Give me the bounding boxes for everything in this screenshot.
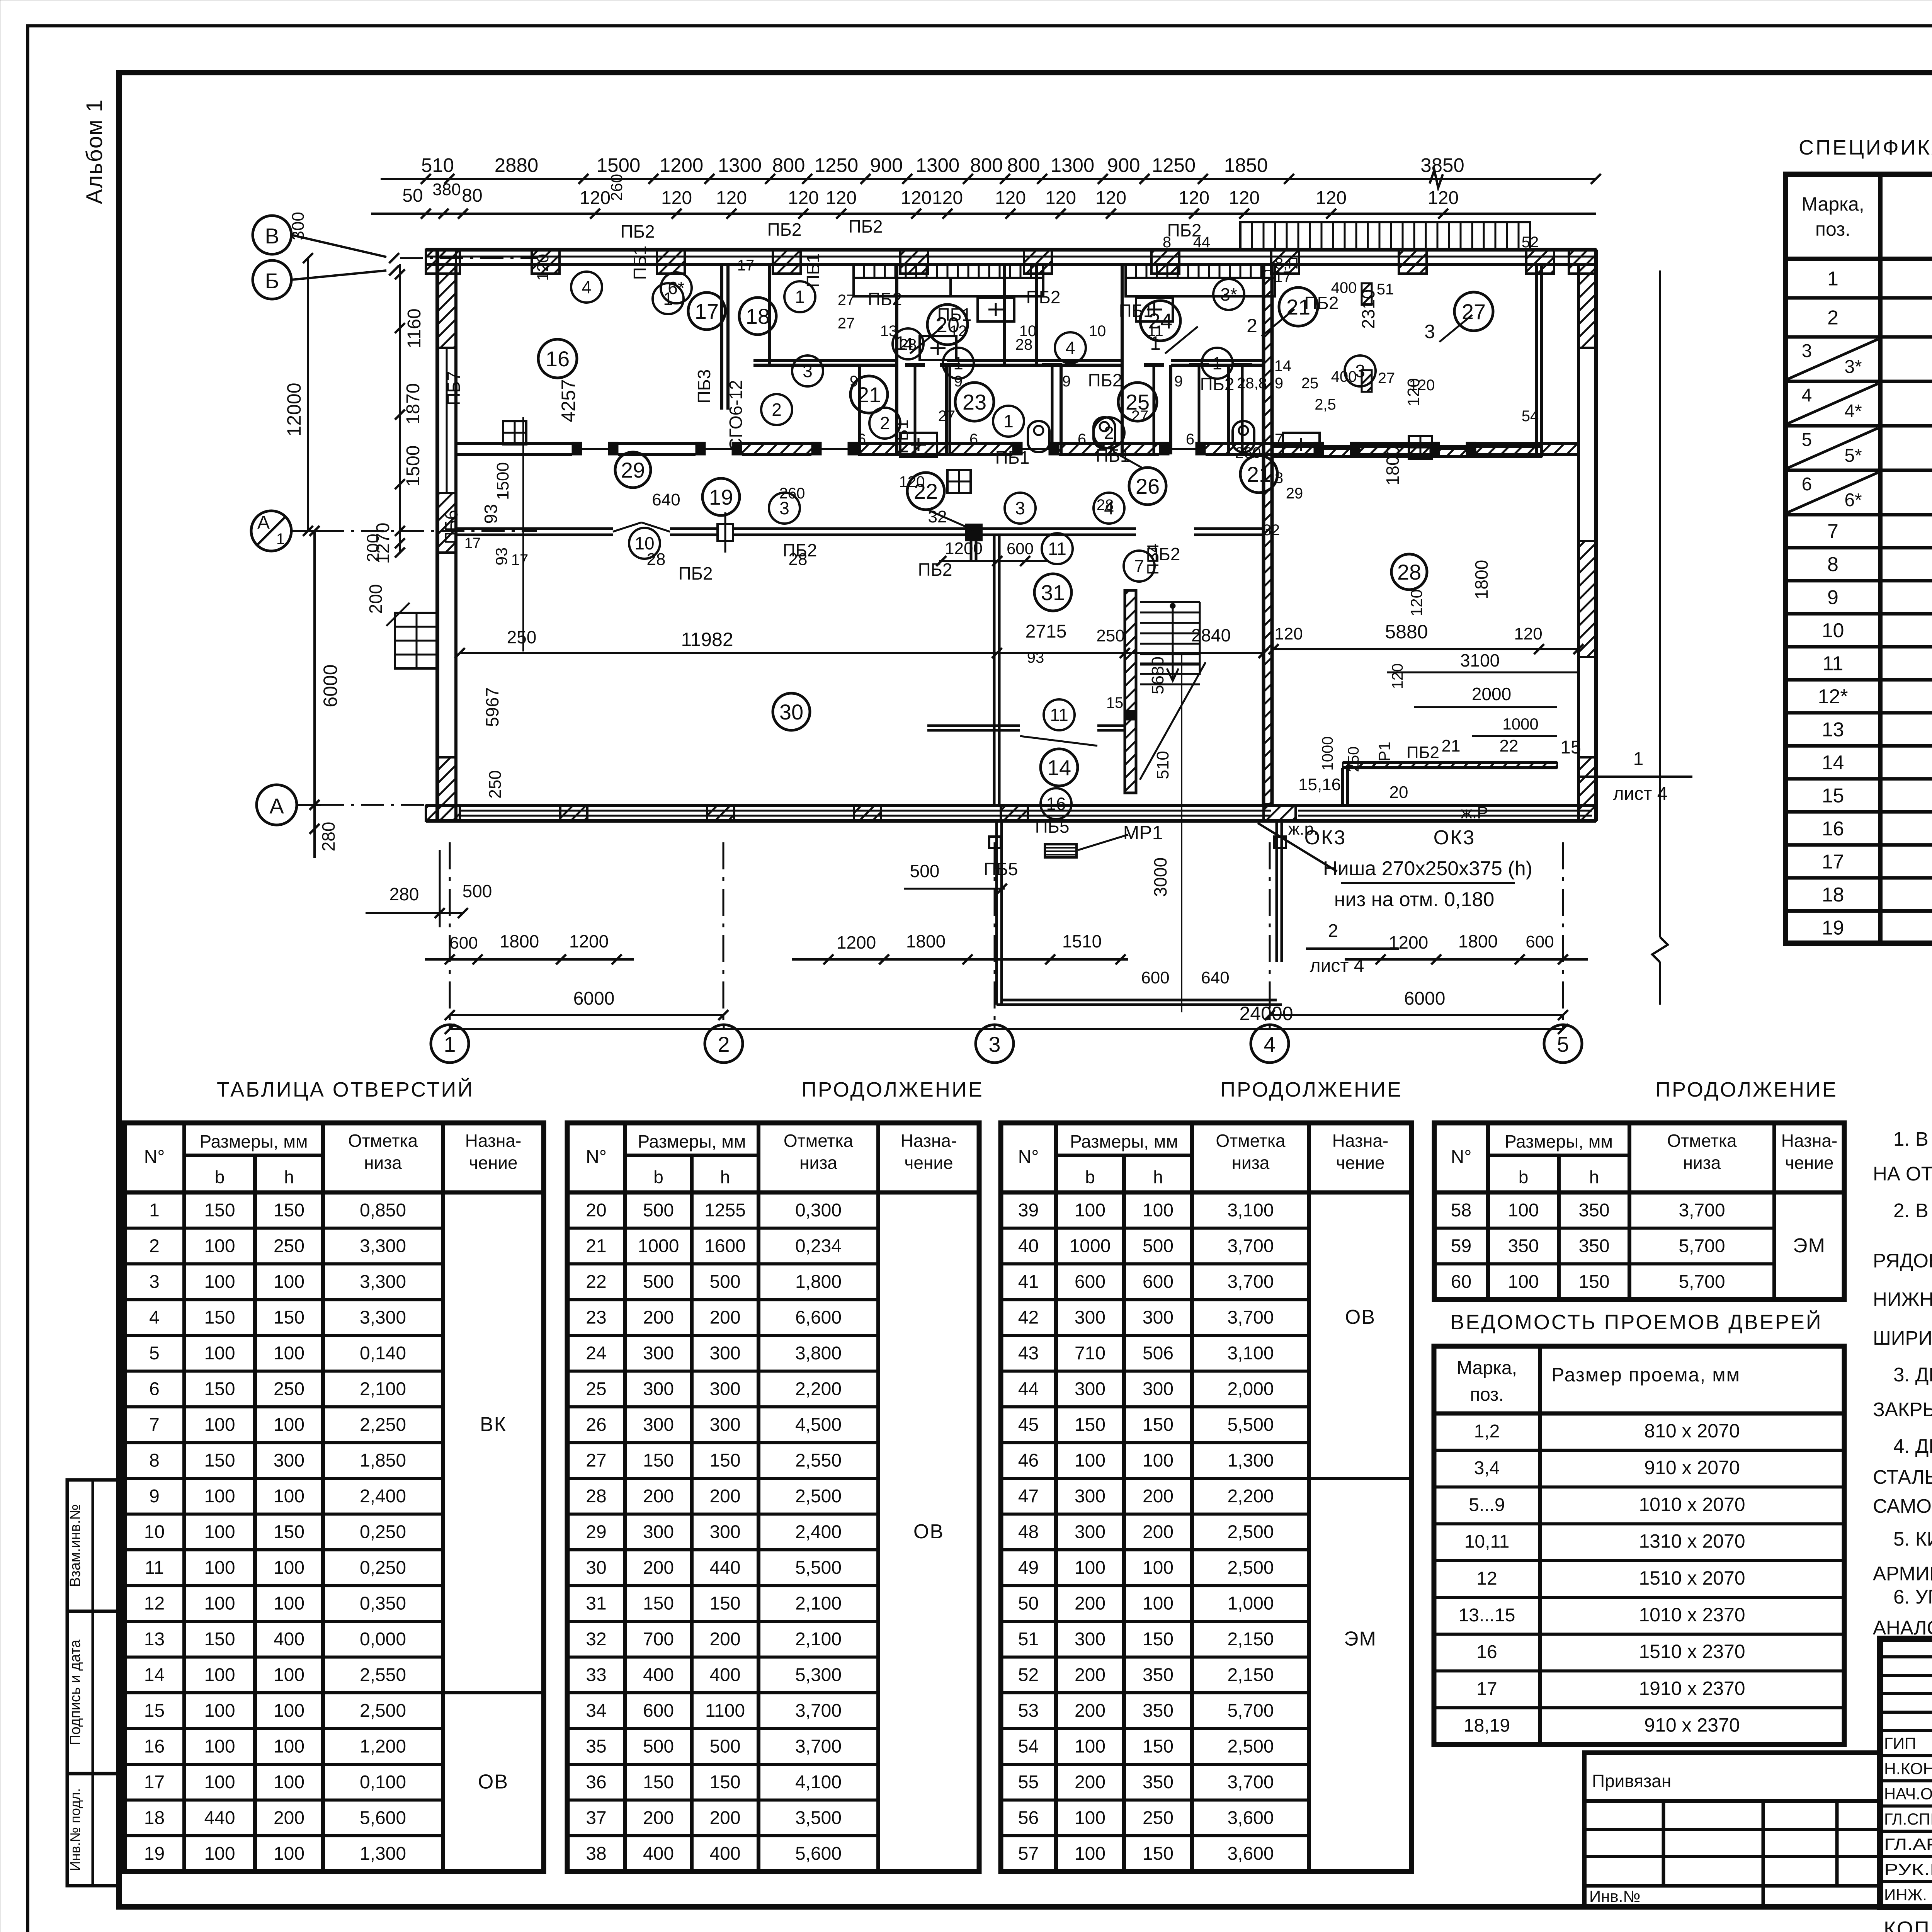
table3 row 54 <box>1001 1763 1309 1766</box>
table1 frame <box>124 1123 544 1872</box>
svg-text:5,700: 5,700 <box>1227 1701 1274 1721</box>
svg-text:3,4: 3,4 <box>1474 1458 1500 1478</box>
svg-text:1. В ПОМЕЩЕНИИ 16 ОКНО СГ: 1. В ПОМЕЩЕНИИ 16 ОКНО СГО 6-12 ГОСТ 125… <box>1893 1128 1932 1150</box>
svg-text:350: 350 <box>1508 1236 1539 1257</box>
svg-text:2,500: 2,500 <box>1227 1522 1274 1543</box>
svg-text:b: b <box>653 1167 663 1187</box>
position circle 4 <box>571 272 602 303</box>
svg-text:200: 200 <box>1143 1486 1173 1507</box>
svg-text:Размер проема, мм: Размер проема, мм <box>1551 1364 1740 1386</box>
cloakroom rack 1 <box>854 265 1043 278</box>
svg-text:2,500: 2,500 <box>1227 1736 1274 1757</box>
svg-text:СПЕЦИФИКАЦИЯ ЭЛЕМЕНТОВ ЗАПОЛ: СПЕЦИФИКАЦИЯ ЭЛЕМЕНТОВ ЗАПОЛНЕНИЯ ПРОЕМО… <box>1799 136 1932 159</box>
svg-text:1910 х 2370: 1910 х 2370 <box>1639 1677 1745 1699</box>
svg-text:100: 100 <box>274 1736 304 1757</box>
svg-text:3,700: 3,700 <box>1227 1236 1274 1257</box>
svg-text:3850: 3850 <box>1420 154 1464 176</box>
svg-text:2: 2 <box>1827 307 1838 329</box>
svg-text:120: 120 <box>716 188 747 208</box>
vedomost row 5...9 <box>1434 1522 1844 1526</box>
room28 dim row <box>1274 648 1578 650</box>
svg-text:НА ОТМЕТКЕ 1,200: НА ОТМЕТКЕ 1,200 <box>1873 1163 1932 1185</box>
position circle 1 <box>1202 348 1233 379</box>
svg-text:510: 510 <box>1153 751 1172 779</box>
svg-text:39: 39 <box>1018 1200 1039 1221</box>
svg-text:b: b <box>1085 1167 1095 1187</box>
vedomost frame <box>1434 1346 1844 1745</box>
svg-text:120: 120 <box>1407 589 1425 616</box>
spec row 1 <box>1786 296 1932 300</box>
svg-text:27: 27 <box>1378 370 1395 387</box>
svg-text:21: 21 <box>1442 736 1461 755</box>
svg-text:54: 54 <box>1018 1736 1039 1757</box>
svg-text:250: 250 <box>1143 1808 1173 1828</box>
vedomost row 1,2 <box>1434 1449 1844 1452</box>
table3 row 42 <box>1001 1334 1309 1337</box>
title block row ГЛ.АРХ. <box>1880 1855 1932 1858</box>
svg-text:50: 50 <box>402 185 423 206</box>
axis row Б <box>253 260 291 299</box>
svg-text:1870: 1870 <box>403 383 423 425</box>
svg-text:1800: 1800 <box>1458 931 1498 951</box>
partition room27 left/bottom <box>1535 264 1538 457</box>
niche leader and note <box>1258 823 1337 871</box>
svg-text:900: 900 <box>870 154 903 176</box>
svg-text:200: 200 <box>709 1629 740 1650</box>
svg-text:150: 150 <box>274 1308 304 1328</box>
svg-text:ПБ1: ПБ1 <box>937 304 972 325</box>
svg-text:ОВ: ОВ <box>1345 1306 1376 1328</box>
wc bowls <box>1028 421 1049 452</box>
vedomost row 18,19 <box>1434 1743 1844 1746</box>
svg-text:350: 350 <box>1143 1665 1173 1685</box>
vedomost row 12 <box>1434 1596 1844 1599</box>
svg-text:100: 100 <box>1075 1451 1105 1471</box>
svg-text:200: 200 <box>274 1808 304 1828</box>
corridor wall opening bridge <box>613 522 641 532</box>
dim 1200 600 at hall wall <box>939 560 1047 562</box>
svg-text:4,500: 4,500 <box>795 1415 842 1435</box>
svg-text:Привязан: Привязан <box>1592 1771 1671 1791</box>
svg-text:ВЕДОМОСТЬ ПРОЕМОВ ДВЕРЕЙ: ВЕДОМОСТЬ ПРОЕМОВ ДВЕРЕЙ <box>1450 1310 1822 1334</box>
spec row 11 <box>1786 678 1932 682</box>
svg-text:23: 23 <box>586 1308 606 1328</box>
svg-text:200: 200 <box>364 534 383 562</box>
svg-text:ГИП: ГИП <box>1884 1734 1916 1752</box>
svg-text:4*: 4* <box>1844 401 1862 422</box>
svg-text:1500: 1500 <box>493 462 512 500</box>
svg-text:45: 45 <box>1018 1415 1039 1435</box>
svg-text:N°: N° <box>586 1147 607 1167</box>
svg-text:27: 27 <box>586 1451 606 1471</box>
svg-text:26: 26 <box>586 1415 606 1435</box>
svg-text:150: 150 <box>1143 1736 1173 1757</box>
svg-text:1000: 1000 <box>1319 736 1336 771</box>
svg-text:120: 120 <box>1389 663 1406 689</box>
svg-text:ПБ2: ПБ2 <box>783 540 817 560</box>
svg-text:38: 38 <box>586 1844 606 1864</box>
svg-text:ПБ2: ПБ2 <box>1088 370 1122 390</box>
svg-text:А: А <box>257 512 270 533</box>
svg-text:ПРОДОЛЖЕНИЕ: ПРОДОЛЖЕНИЕ <box>1655 1078 1838 1101</box>
spec row 5 <box>1786 469 1932 472</box>
table1 row 16 <box>124 1763 443 1766</box>
top dimension chain row1 <box>381 178 1596 180</box>
svg-text:5,600: 5,600 <box>360 1808 406 1828</box>
svg-text:15: 15 <box>1106 694 1124 711</box>
corridor wall axis post <box>718 524 733 541</box>
svg-text:b: b <box>215 1167 225 1187</box>
table3 row 43 <box>1001 1370 1309 1373</box>
svg-text:низа: низа <box>1232 1153 1270 1173</box>
position circle 16 <box>1041 788 1071 819</box>
svg-text:ПБ1: ПБ1 <box>630 246 650 280</box>
svg-text:Альбом 1: Альбом 1 <box>82 99 107 204</box>
svg-text:2: 2 <box>718 1032 730 1056</box>
svg-text:640: 640 <box>652 490 680 509</box>
svg-text:27: 27 <box>838 315 855 332</box>
room circle 25 <box>1118 383 1157 421</box>
svg-text:9: 9 <box>1174 373 1183 390</box>
svg-text:4257: 4257 <box>558 379 579 422</box>
svg-text:17: 17 <box>1476 1679 1497 1699</box>
lintel stubs room27 <box>1362 283 1372 305</box>
svg-text:22: 22 <box>1500 736 1519 755</box>
svg-text:120: 120 <box>899 473 925 490</box>
svg-text:2,200: 2,200 <box>1227 1486 1274 1507</box>
title block row ГИП <box>1880 1754 1932 1757</box>
svg-text:8: 8 <box>1163 234 1171 251</box>
table3 row 49 <box>1001 1584 1309 1587</box>
svg-text:16: 16 <box>1046 794 1066 814</box>
svg-text:120: 120 <box>826 188 857 208</box>
svg-text:48: 48 <box>1018 1522 1039 1543</box>
svg-text:3*: 3* <box>1220 284 1237 304</box>
svg-text:ОВ: ОВ <box>478 1771 509 1793</box>
svg-text:15: 15 <box>1822 784 1844 807</box>
svg-text:500: 500 <box>709 1736 740 1757</box>
svg-text:1255: 1255 <box>704 1200 746 1221</box>
hall dim row <box>460 652 1264 654</box>
table3 row 44 <box>1001 1405 1309 1408</box>
svg-text:5,700: 5,700 <box>1679 1236 1725 1257</box>
position circle 6* <box>661 272 692 303</box>
svg-text:ПБ5: ПБ5 <box>984 859 1018 879</box>
svg-text:17: 17 <box>737 257 755 274</box>
svg-text:1250: 1250 <box>1152 154 1196 176</box>
table2 row 20 <box>567 1227 878 1230</box>
room circle 23 <box>955 383 994 421</box>
svg-text:ПБ2: ПБ2 <box>1026 287 1061 307</box>
table2 row 25 <box>567 1405 878 1408</box>
spec row 17 <box>1786 876 1932 880</box>
svg-text:чение: чение <box>469 1153 517 1173</box>
svg-text:800: 800 <box>1007 154 1040 176</box>
svg-text:2000: 2000 <box>1472 684 1511 704</box>
svg-text:2,100: 2,100 <box>795 1629 842 1650</box>
outside gallery strip top right <box>1240 222 1530 250</box>
svg-text:120: 120 <box>1316 188 1347 208</box>
svg-text:300: 300 <box>709 1379 740 1400</box>
svg-text:100: 100 <box>204 1522 235 1543</box>
svg-text:11982: 11982 <box>681 629 733 650</box>
position circle 11 <box>1042 533 1073 564</box>
left dim chain inner <box>399 264 401 553</box>
svg-text:100: 100 <box>204 1772 235 1793</box>
svg-text:0,250: 0,250 <box>360 1522 406 1543</box>
circle 22 leader <box>928 510 974 530</box>
svg-text:3*: 3* <box>1844 357 1862 377</box>
svg-text:440: 440 <box>709 1558 740 1578</box>
svg-text:18,19: 18,19 <box>1464 1716 1510 1736</box>
svg-text:В: В <box>265 224 279 248</box>
room circle 20 <box>927 304 968 345</box>
svg-text:5967: 5967 <box>482 687 502 727</box>
spec row 4 <box>1786 424 1932 428</box>
vestibule step MP1 <box>1045 844 1077 857</box>
svg-text:150: 150 <box>643 1594 674 1614</box>
svg-text:6*: 6* <box>668 278 685 298</box>
svg-text:300: 300 <box>1143 1308 1173 1328</box>
position circle 3 <box>792 355 823 386</box>
svg-text:9: 9 <box>850 373 858 390</box>
svg-text:Марка,: Марка, <box>1801 193 1864 215</box>
svg-text:0,100: 0,100 <box>360 1772 406 1793</box>
exterior wall bottom right OK3 windows <box>1296 804 1596 807</box>
svg-text:17: 17 <box>464 535 481 551</box>
svg-text:150: 150 <box>643 1451 674 1471</box>
table1 row 2 <box>124 1262 443 1265</box>
svg-text:93: 93 <box>1027 649 1044 666</box>
svg-text:ПБ6: ПБ6 <box>441 510 461 544</box>
svg-text:53: 53 <box>1018 1701 1039 1721</box>
table2 row 32 <box>567 1656 878 1659</box>
svg-text:380: 380 <box>432 180 461 199</box>
vedomost row 16 <box>1434 1669 1844 1672</box>
svg-text:350: 350 <box>1578 1200 1609 1221</box>
svg-text:5*: 5* <box>1844 446 1862 466</box>
svg-text:ПБ2: ПБ2 <box>1406 743 1439 762</box>
svg-text:4: 4 <box>582 277 592 297</box>
table1 row 18 <box>124 1834 443 1837</box>
table2 row 23 <box>567 1334 878 1337</box>
svg-text:ЗАКРЫВАЮЩИМИСЯ.: ЗАКРЫВАЮЩИМИСЯ. <box>1873 1398 1932 1420</box>
table2 row 21 <box>567 1262 878 1265</box>
svg-text:5,300: 5,300 <box>795 1665 842 1685</box>
svg-text:93: 93 <box>481 504 501 524</box>
svg-text:13...15: 13...15 <box>1459 1605 1515 1626</box>
svg-text:1800: 1800 <box>500 931 539 951</box>
svg-text:100: 100 <box>204 1272 235 1292</box>
svg-text:низа: низа <box>799 1153 837 1173</box>
svg-text:300: 300 <box>274 1451 304 1471</box>
table2 row 36 <box>567 1799 878 1802</box>
table3 frame <box>1001 1123 1412 1872</box>
svg-text:ГЛ.АРХ.: ГЛ.АРХ. <box>1884 1835 1932 1853</box>
svg-text:2840: 2840 <box>1191 625 1231 645</box>
svg-text:21: 21 <box>857 383 881 407</box>
svg-text:2: 2 <box>1328 921 1338 941</box>
svg-text:43: 43 <box>1018 1343 1039 1364</box>
svg-text:32: 32 <box>1263 522 1280 539</box>
svg-text:НАЧ.ОТД.: НАЧ.ОТД. <box>1884 1785 1932 1803</box>
svg-text:280: 280 <box>318 822 338 852</box>
svg-text:56: 56 <box>1018 1808 1039 1828</box>
svg-text:58: 58 <box>1451 1200 1471 1221</box>
svg-text:18: 18 <box>1822 884 1844 906</box>
svg-text:100: 100 <box>274 1486 304 1507</box>
svg-text:600: 600 <box>1141 968 1169 987</box>
svg-text:2,250: 2,250 <box>360 1415 406 1435</box>
svg-text:200: 200 <box>709 1308 740 1328</box>
svg-text:ПБ4: ПБ4 <box>1144 543 1162 575</box>
svg-text:100: 100 <box>1143 1200 1173 1221</box>
svg-text:100: 100 <box>1143 1451 1173 1471</box>
table2 row 37 <box>567 1834 878 1837</box>
svg-text:710: 710 <box>1075 1343 1105 1364</box>
svg-text:400: 400 <box>274 1629 304 1650</box>
stair cut line <box>1140 662 1206 780</box>
svg-text:800: 800 <box>970 154 1003 176</box>
svg-text:6: 6 <box>149 1379 160 1400</box>
svg-text:100: 100 <box>274 1272 304 1292</box>
left box Подпись и дата <box>67 1611 119 1774</box>
svg-text:4,100: 4,100 <box>795 1772 842 1793</box>
vedomost row 10,11 <box>1434 1559 1844 1562</box>
svg-text:47: 47 <box>1018 1486 1039 1507</box>
svg-text:25: 25 <box>586 1379 606 1400</box>
svg-text:100: 100 <box>204 1236 235 1257</box>
svg-text:1: 1 <box>1003 411 1014 431</box>
exterior wall right <box>1577 264 1580 821</box>
svg-text:150: 150 <box>1143 1844 1173 1864</box>
position circle 4 <box>1055 332 1086 363</box>
svg-text:11: 11 <box>1048 539 1066 559</box>
svg-text:300: 300 <box>1075 1486 1105 1507</box>
svg-text:АРМИРОВАННЫМИ. СХЕМЫ АРМИРО: АРМИРОВАННЫМИ. СХЕМЫ АРМИРОВАНИЯ ДАНЫ НА… <box>1873 1563 1932 1585</box>
table2 row 30 <box>567 1584 878 1587</box>
table1 row 15 <box>124 1727 443 1730</box>
svg-text:ПБ1: ПБ1 <box>1096 446 1130 466</box>
table3 row 56 <box>1001 1834 1309 1837</box>
svg-text:300: 300 <box>1075 1308 1105 1328</box>
svg-text:350: 350 <box>1143 1701 1173 1721</box>
svg-text:3,600: 3,600 <box>1227 1844 1274 1864</box>
svg-text:27: 27 <box>838 292 855 309</box>
svg-text:N°: N° <box>1451 1147 1472 1167</box>
svg-text:600: 600 <box>1075 1272 1105 1292</box>
spec row 12* <box>1786 711 1932 714</box>
svg-text:3: 3 <box>803 361 813 381</box>
svg-text:100: 100 <box>204 1558 235 1578</box>
svg-text:1000: 1000 <box>638 1236 679 1257</box>
position circle 10 <box>629 528 660 559</box>
room circle 22 <box>907 473 944 510</box>
svg-text:31: 31 <box>586 1594 606 1614</box>
svg-text:4: 4 <box>1065 338 1075 358</box>
svg-text:150: 150 <box>204 1308 235 1328</box>
svg-text:600: 600 <box>1526 932 1554 951</box>
table2 row 27 <box>567 1477 878 1480</box>
table1 row 13 <box>124 1656 443 1659</box>
top wall piers <box>426 250 460 274</box>
table2 row 29 <box>567 1548 878 1551</box>
svg-text:29: 29 <box>621 458 645 482</box>
svg-text:1: 1 <box>444 1032 456 1056</box>
spec row 19 <box>1786 942 1932 946</box>
svg-text:100: 100 <box>204 1486 235 1507</box>
svg-text:2,550: 2,550 <box>360 1665 406 1685</box>
circle 26 leader <box>1113 451 1143 468</box>
table3 row 39 <box>1001 1227 1309 1230</box>
svg-text:27: 27 <box>938 408 956 425</box>
table3 row 52 <box>1001 1691 1309 1694</box>
table3 row 50 <box>1001 1620 1309 1623</box>
svg-text:Ниша 270х250х375 (h): Ниша 270х250х375 (h) <box>1323 857 1532 880</box>
position circle 4 <box>1094 493 1124 524</box>
axis row B <box>253 216 291 254</box>
svg-text:12: 12 <box>144 1594 165 1614</box>
svg-text:3,700: 3,700 <box>1227 1272 1274 1292</box>
svg-text:100: 100 <box>1508 1200 1539 1221</box>
svg-text:120: 120 <box>1428 188 1459 208</box>
svg-text:ПБ2: ПБ2 <box>767 219 802 240</box>
svg-text:ПБ2: ПБ2 <box>849 216 883 236</box>
svg-text:ПРОДОЛЖЕНИЕ: ПРОДОЛЖЕНИЕ <box>801 1078 984 1101</box>
svg-text:ПБ2: ПБ2 <box>621 221 655 241</box>
bottom dim 24000 <box>450 1028 1563 1030</box>
svg-text:18: 18 <box>746 304 770 328</box>
svg-text:2: 2 <box>149 1236 160 1257</box>
svg-text:29: 29 <box>1286 485 1303 502</box>
svg-text:10,11: 10,11 <box>1464 1532 1510 1552</box>
svg-text:600: 600 <box>1143 1272 1173 1292</box>
svg-text:3,300: 3,300 <box>360 1272 406 1292</box>
svg-text:120: 120 <box>1229 188 1260 208</box>
vedomost row 17 <box>1434 1706 1844 1709</box>
svg-text:ПБ1: ПБ1 <box>803 253 823 288</box>
axis row A <box>257 785 297 825</box>
svg-text:6: 6 <box>969 431 978 448</box>
svg-text:500: 500 <box>643 1736 674 1757</box>
svg-text:260: 260 <box>1235 444 1261 461</box>
svg-text:1800: 1800 <box>906 931 946 951</box>
partition room16 right <box>720 264 723 410</box>
svg-text:ПБ1: ПБ1 <box>1119 301 1153 321</box>
svg-text:24000: 24000 <box>1239 1003 1293 1024</box>
svg-text:1: 1 <box>276 531 285 548</box>
svg-text:17: 17 <box>511 551 529 568</box>
svg-text:100: 100 <box>1075 1736 1105 1757</box>
svg-text:А: А <box>269 794 284 818</box>
svg-text:3,100: 3,100 <box>1227 1343 1274 1364</box>
top dimension chain row2 <box>371 213 1596 215</box>
room circle 21 <box>850 376 888 413</box>
svg-text:30: 30 <box>586 1558 606 1578</box>
floor drain grid <box>503 421 526 444</box>
svg-text:150: 150 <box>709 1451 740 1471</box>
svg-text:120: 120 <box>661 188 692 208</box>
svg-text:6,600: 6,600 <box>795 1308 842 1328</box>
svg-text:9: 9 <box>149 1486 160 1507</box>
table1 row 8 <box>124 1477 443 1480</box>
left dim 6000 <box>313 531 316 805</box>
svg-text:6000: 6000 <box>1404 988 1446 1009</box>
svg-text:300: 300 <box>709 1522 740 1543</box>
svg-text:ПБ2: ПБ2 <box>868 289 902 309</box>
svg-text:700: 700 <box>643 1629 674 1650</box>
svg-text:ИНЖ.: ИНЖ. <box>1884 1886 1927 1904</box>
